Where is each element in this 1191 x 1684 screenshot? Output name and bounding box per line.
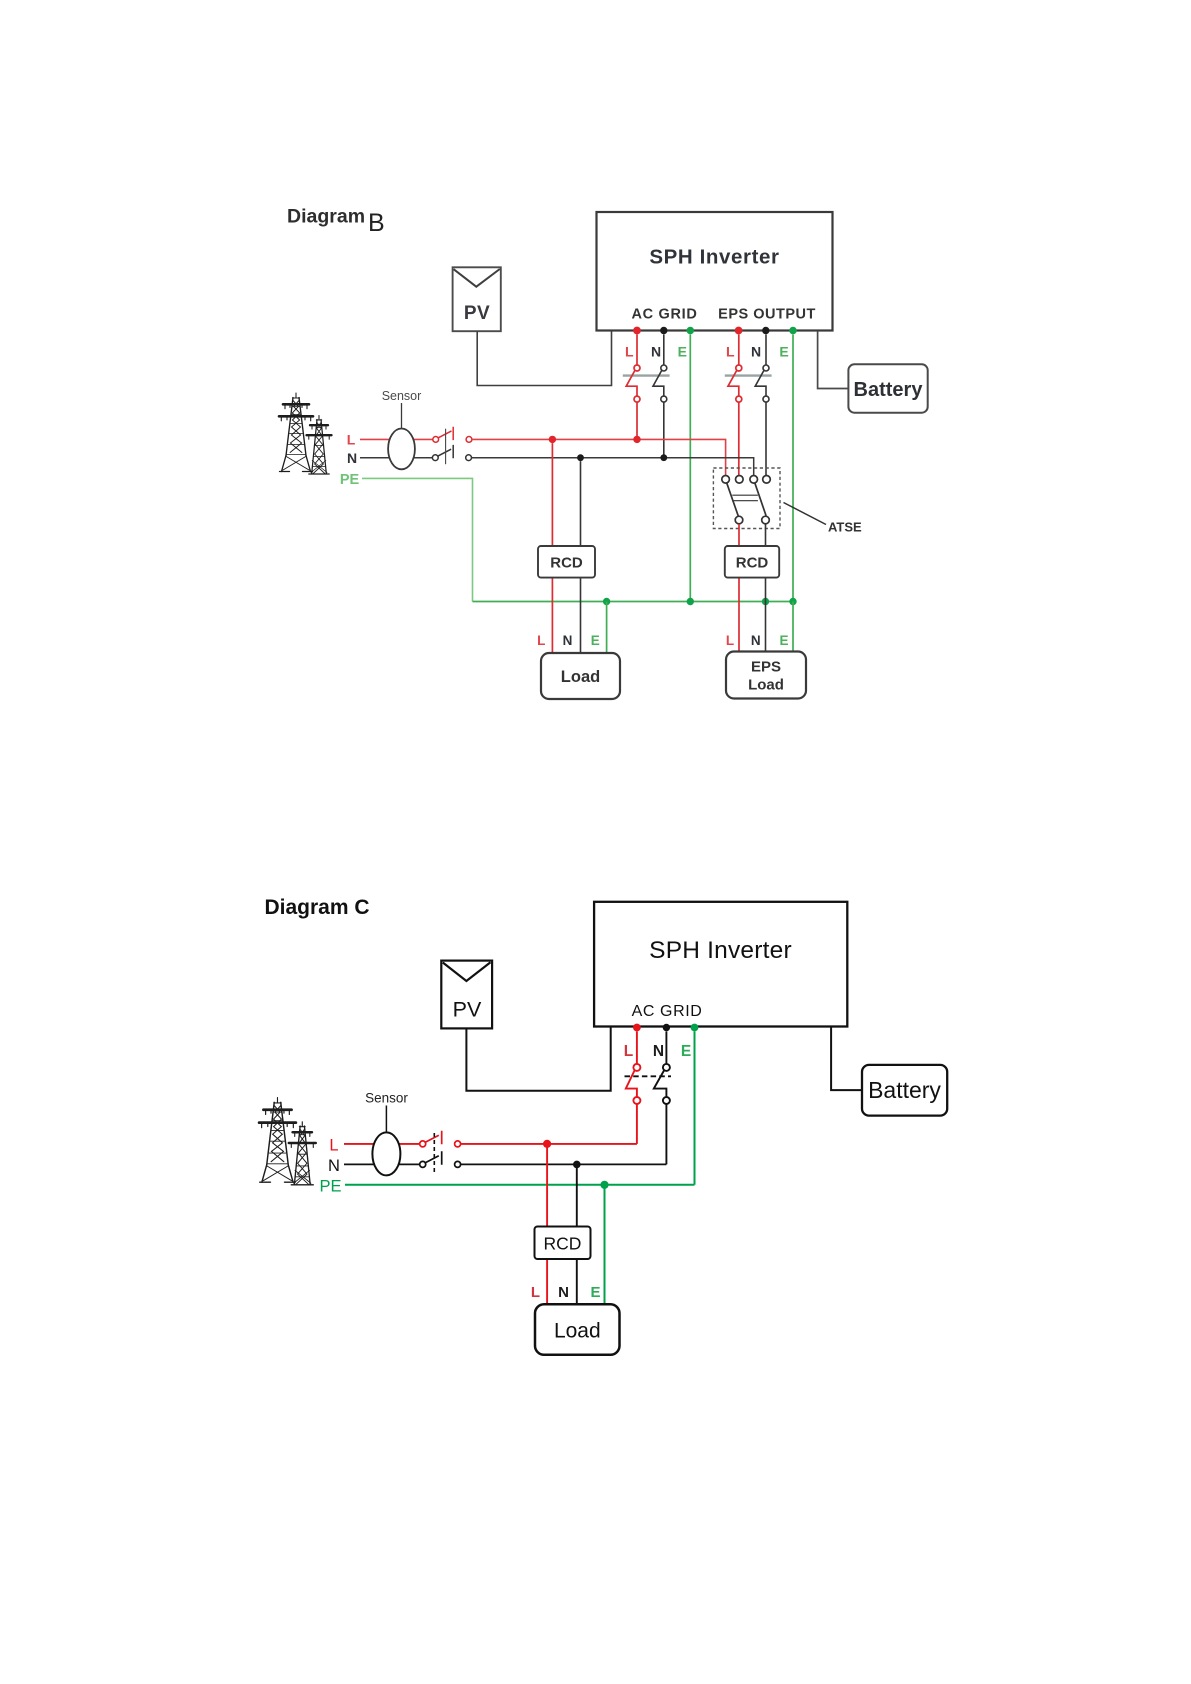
breaker SW1 linkage bar [623,374,670,376]
ATSE output circle L [735,516,743,524]
breaker SW2 L-pole (EPS OUTPUT) [728,334,742,475]
junction dot L at AC GRID branch [633,436,640,443]
wire N bus (grid neutral) [360,457,432,459]
svg-text:E: E [678,344,687,360]
svg-text:RCD: RCD [736,555,769,572]
RCD1 box [538,546,595,578]
junction dot N at RCD branch [577,454,584,461]
terminal dot E (Diagram C) [691,1024,699,1032]
wire L bus continues to ATSE [472,439,726,475]
junction dot N at AC GRID branch [660,454,667,461]
wire N bus continues to breaker (Diagram C) [461,1163,667,1165]
svg-text:E: E [590,1284,600,1301]
Load box (Diagram C) [535,1304,620,1355]
wire E from EPS OUTPUT down [792,334,794,601]
wire N to RCD1 and Load [580,461,582,653]
grid towers icon (Diagram C) [259,1098,316,1185]
grid towers icon (Diagram B) [279,393,332,474]
svg-text:L: L [726,633,734,648]
disconnect switch L-pole (grid side) [433,427,472,443]
svg-text:L: L [531,1284,540,1301]
wire E branch to Load [606,602,608,654]
junction dot N (Diagram C) [573,1161,581,1169]
svg-text:L: L [625,344,634,360]
wire E branch to EPS Load [792,602,794,652]
sensor CT ellipse (Diagram C) [365,1091,408,1176]
terminal dot N (Diagram C) [663,1024,670,1031]
svg-text:B: B [368,209,385,237]
wire L bus (Diagram C) [344,1143,420,1145]
svg-text:RCD: RCD [550,555,583,572]
breaker SW2 N-pole (EPS OUTPUT) [755,334,769,475]
wire E branch to Load (Diagram C) [604,1185,606,1305]
disconnect switch L-pole (Diagram C) [420,1131,461,1147]
wire PE (green) [362,478,473,601]
wire E ground bus (green) [473,601,794,603]
ATSE terminal circle 2 (EPS L) [736,476,744,484]
wire L ATSE to EPS Load [738,524,740,651]
svg-text:PV: PV [453,998,482,1022]
breaker SW1 N-pole (AC GRID) [653,334,667,457]
inverter U1 box SPH Inverter (Diagram B) [597,212,833,331]
svg-text:Diagram: Diagram [287,206,365,228]
svg-text:PE: PE [340,472,360,488]
ATSE terminal circle 1 (grid L) [722,476,730,484]
title Diagram B [287,206,385,238]
ATSE dashed enclosure [713,468,780,529]
ATSE blade L [727,483,738,516]
EPS Load box [726,652,806,699]
terminal dot AC GRID E [687,327,695,335]
svg-text:SPH Inverter: SPH Inverter [649,246,779,269]
ATSE linkage bars [732,495,758,501]
wire inverter to battery (Diagram B) [818,331,849,388]
wire N bus (Diagram C) [344,1163,420,1165]
wire N ATSE to EPS Load [765,524,767,651]
svg-text:N: N [558,1284,569,1301]
svg-text:E: E [591,633,600,648]
wire E from AC GRID down [689,334,691,601]
RCD box (Diagram C) [535,1227,591,1260]
ATSE output circle N [762,516,770,524]
ATSE terminal circle 4 (EPS N) [763,476,771,484]
svg-text:E: E [779,344,788,360]
svg-text:L: L [726,344,735,360]
breaker SW2 linkage bar [725,374,772,376]
terminal dot EPS N [762,327,769,334]
PV module box (Diagram B) [453,267,501,331]
ATSE terminal circle 3 (grid N) [750,476,758,484]
svg-text:Battery: Battery [868,1077,941,1103]
svg-text:Diagram C: Diagram C [265,896,370,919]
svg-text:N: N [328,1157,340,1175]
svg-text:AC GRID: AC GRID [632,1003,703,1020]
svg-text:Sensor: Sensor [382,389,422,403]
terminal dot AC GRID N [660,327,667,334]
svg-text:PE: PE [319,1177,341,1195]
RCD2 box [725,546,779,578]
disconnect switch dashed linkage (Diagram C) [433,1133,435,1172]
svg-text:L: L [347,431,356,447]
breaker L-pole (Diagram C) [626,1031,641,1144]
wire PE (Diagram C) [345,1184,695,1186]
wire E down to PE (Diagram C) [694,1031,696,1184]
svg-text:AC GRID: AC GRID [631,307,697,323]
junction dot PE (Diagram C) [600,1181,608,1189]
ATSE blade N [755,483,766,516]
terminal dot EPS L [735,327,743,335]
svg-text:Sensor: Sensor [365,1091,408,1106]
junction dot E (EPS branch) [789,598,796,605]
svg-text:N: N [347,450,357,466]
svg-text:ATSE: ATSE [828,520,862,535]
Battery box (Diagram C) [862,1065,947,1116]
Load box (Diagram B) [541,653,620,699]
junction dot E (Load branch) [603,598,610,605]
junction dot E (RCD2) [762,598,769,605]
junction dot L (Diagram C) [543,1140,551,1148]
svg-text:EPS: EPS [751,659,781,676]
junction dot E (AC GRID E) [687,598,694,605]
terminal dot AC GRID L [633,327,641,335]
svg-text:L: L [624,1043,633,1060]
svg-text:L: L [329,1137,338,1155]
svg-text:EPS OUTPUT: EPS OUTPUT [718,307,816,323]
wire PV to inverter (Diagram C) [466,1027,610,1091]
svg-text:Load: Load [561,668,600,686]
svg-text:N: N [751,344,761,360]
svg-text:N: N [651,344,661,360]
terminal dot L (Diagram C) [633,1024,641,1032]
svg-text:Battery: Battery [854,379,924,401]
svg-text:N: N [751,633,761,648]
disconnect switch linkage [445,429,447,465]
ATSE pointer line [784,503,827,525]
sensor CT ellipse (Diagram B) [382,389,422,469]
svg-text:PV: PV [464,303,490,324]
svg-text:E: E [681,1043,691,1060]
terminal dot EPS E [789,327,797,335]
svg-text:E: E [779,633,788,648]
svg-text:SPH Inverter: SPH Inverter [649,937,792,964]
wire L bus (grid live, red) [360,438,433,440]
wire PV to inverter (Diagram B) [477,331,611,385]
wire L to RCD and Load (Diagram C) [546,1148,548,1305]
wire inverter to battery (Diagram C) [831,1027,862,1091]
svg-text:RCD: RCD [544,1234,582,1254]
disconnect switch N-pole (grid side) [432,445,471,461]
svg-text:L: L [537,633,545,648]
wire L bus continues to breaker (Diagram C) [461,1143,637,1145]
svg-text:N: N [653,1043,664,1060]
svg-text:Load: Load [554,1320,601,1343]
junction dot L at RCD branch [549,436,556,443]
inverter U2 box SPH Inverter (Diagram C) [594,902,847,1027]
wire N to RCD and Load (Diagram C) [576,1168,578,1305]
PV module box (Diagram C) [441,961,492,1029]
wire N bus continues to ATSE [472,458,754,476]
svg-text:N: N [563,633,573,648]
wire L to RCD1 and Load [551,443,553,653]
breaker dashed linkage (Diagram C) [625,1075,672,1077]
disconnect switch N-pole (Diagram C) [420,1151,461,1167]
breaker SW1 L-pole (AC GRID) [626,334,640,439]
svg-text:Load: Load [748,677,784,694]
Battery box (Diagram B) [848,364,927,412]
breaker N-pole (Diagram C) [654,1031,670,1164]
